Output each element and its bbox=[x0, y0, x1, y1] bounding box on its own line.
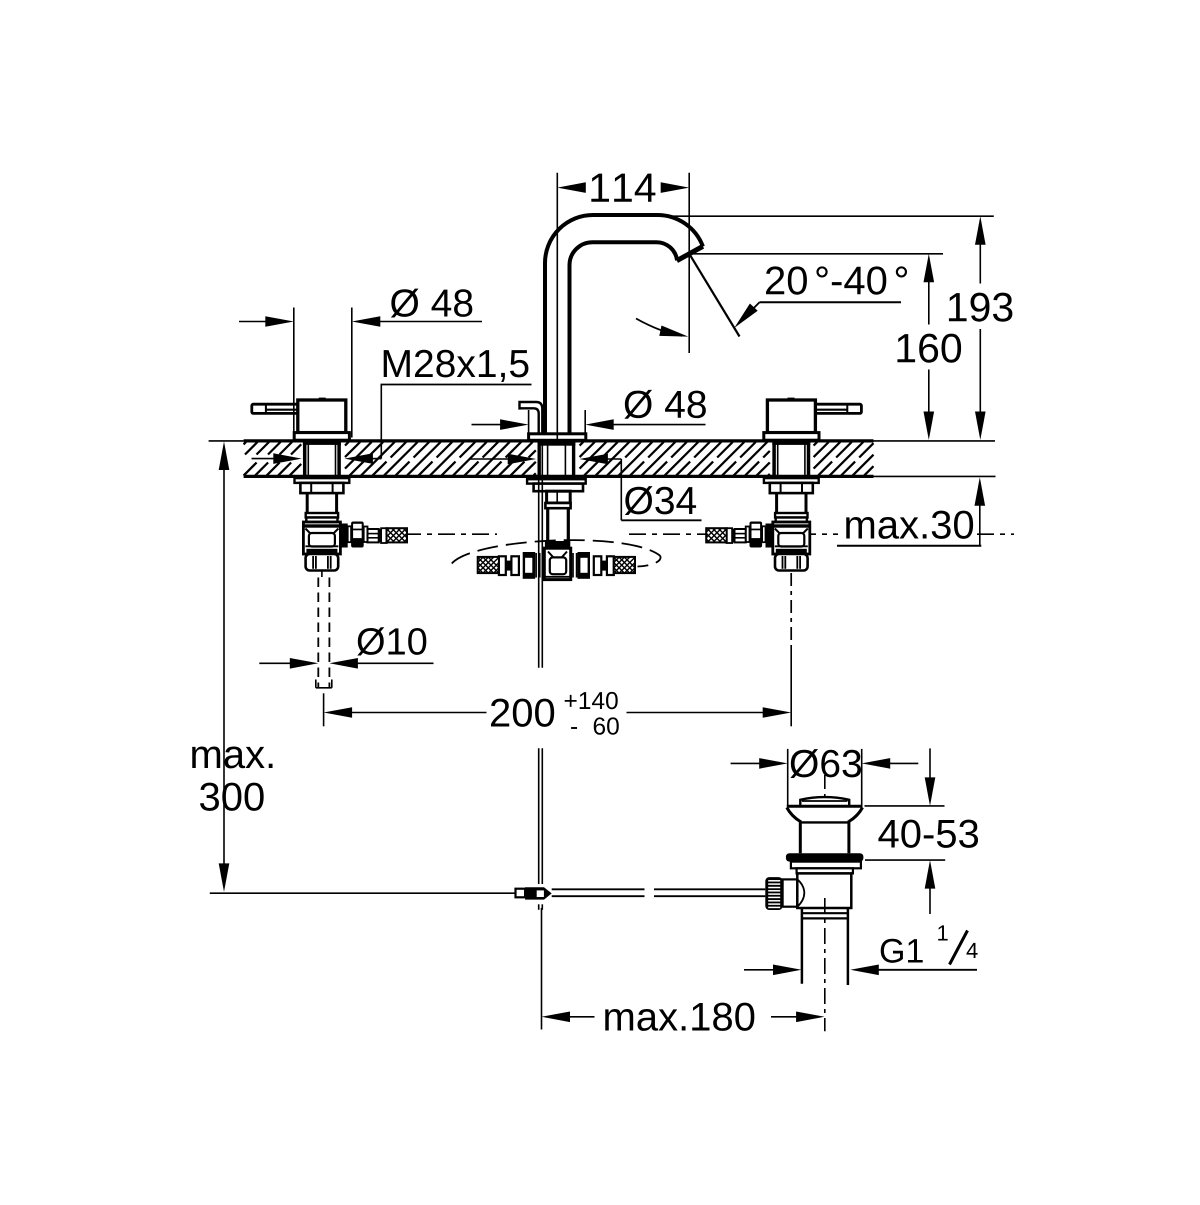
dim G1 1/4 bbox=[744, 925, 978, 975]
dim diameter 34 bbox=[470, 454, 702, 521]
valve locknut bbox=[300, 483, 343, 493]
valve handle body bbox=[767, 400, 815, 433]
valve lever handle bbox=[252, 404, 298, 413]
shank locknut bbox=[534, 484, 583, 492]
dim diameter 48 center bbox=[472, 390, 706, 434]
valve handle body bbox=[298, 400, 346, 433]
valve threaded shank in deck bbox=[807, 441, 811, 476]
dim 193 bbox=[661, 216, 1012, 440]
hose tee collar bbox=[545, 503, 570, 508]
dim 40-53 bbox=[865, 748, 979, 914]
valve lever handle bbox=[815, 404, 861, 413]
valve body tube bbox=[306, 493, 309, 513]
valve collar rings bbox=[775, 513, 807, 518]
valve supply hose braid bbox=[387, 528, 408, 542]
spout base flange bbox=[529, 434, 586, 441]
drain centerline bbox=[824, 775, 826, 1031]
valve threaded shank in deck bbox=[303, 441, 307, 476]
valve locknut bbox=[770, 483, 813, 493]
countertop deck bbox=[209, 441, 996, 477]
valve outlet nut bbox=[306, 554, 339, 571]
tee inlet tube bbox=[548, 508, 569, 541]
shank neck bbox=[547, 491, 571, 503]
dim max.300 bbox=[192, 442, 272, 892]
valve washer below deck bbox=[295, 476, 349, 479]
dim 200 +140 -60 bbox=[324, 692, 792, 735]
angle valve body bbox=[303, 522, 340, 554]
right valve tap bbox=[706, 398, 861, 571]
valve side outlet fitting bbox=[341, 524, 348, 548]
drain flange trumpet bbox=[787, 806, 863, 853]
valve base flange bbox=[764, 433, 819, 441]
left valve tap bbox=[252, 398, 407, 571]
drain actuator bar bbox=[552, 889, 766, 896]
dim 114 bbox=[557, 173, 689, 440]
faucet spout body bbox=[545, 215, 703, 434]
hose centerline bbox=[404, 533, 497, 535]
dim 160 bbox=[692, 254, 962, 440]
pop-up rod bbox=[520, 402, 543, 910]
horizontal pop-up actuating rod bbox=[210, 892, 516, 894]
drain locknut bbox=[791, 862, 861, 869]
rod clamp joint bbox=[516, 887, 552, 899]
dim diameter 63 bbox=[731, 749, 919, 806]
left valve dashed inlet pipe bbox=[316, 571, 332, 688]
drain rubber gasket bbox=[786, 853, 864, 861]
dim diameter 48 left bbox=[239, 289, 482, 438]
shank washer below deck bbox=[527, 477, 586, 484]
flexible connection hoses at tee bbox=[478, 552, 635, 579]
valve body tube bbox=[805, 493, 808, 513]
spout swivel arc bbox=[636, 319, 688, 337]
valve base flange bbox=[294, 433, 349, 441]
valve washer below deck bbox=[764, 476, 818, 479]
spout shank through deck bbox=[538, 441, 575, 476]
drain boss bbox=[783, 879, 798, 906]
valve collar rings bbox=[306, 513, 338, 518]
dim M28x1,5 bbox=[252, 350, 532, 464]
right valve centerline drop bbox=[790, 573, 792, 726]
drain pop-up plug cap bbox=[800, 797, 849, 806]
dim max.180 bbox=[542, 908, 825, 1031]
drain valve body bbox=[797, 873, 851, 908]
dim max.30 bbox=[837, 477, 985, 545]
deck section hatch bbox=[244, 442, 874, 476]
dim 20-40 degrees bbox=[691, 256, 908, 337]
drain tailpipe bbox=[801, 908, 849, 985]
hose tee body bbox=[544, 548, 570, 579]
tee top cap bbox=[545, 541, 570, 548]
drain body step bbox=[797, 868, 853, 873]
drain adjuster knurled knob bbox=[765, 877, 782, 910]
angle valve body bbox=[773, 522, 810, 554]
dim diameter 10 bbox=[259, 627, 433, 668]
flexible hose loop arc bbox=[452, 540, 661, 566]
valve side outlet fitting bbox=[766, 524, 773, 548]
valve outlet nut bbox=[775, 554, 808, 571]
valve supply hose braid bbox=[706, 528, 727, 542]
